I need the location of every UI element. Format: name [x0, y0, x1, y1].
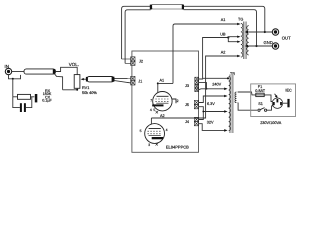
svg-text:J1: J1 [138, 80, 142, 84]
wire TR primary bottom to switch [238, 103, 258, 111]
shielded cable W2 [86, 77, 115, 82]
svg-text:RV1: RV1 [82, 86, 89, 90]
node A1 pad [157, 82, 159, 84]
wire IEC to cord [283, 102, 288, 104]
arrow common at TR [224, 110, 227, 113]
tube V2 [140, 124, 168, 147]
node shield at GND wire [255, 45, 257, 47]
svg-text:0.1µF: 0.1µF [42, 99, 52, 103]
shielded cable W3 [150, 4, 184, 9]
node UB fork [227, 36, 229, 38]
transformer TR mains [229, 72, 237, 133]
svg-text:230V/100VA: 230V/100VA [260, 121, 282, 125]
svg-text:32V: 32V [207, 120, 214, 124]
wire UB fork lower tap [228, 38, 239, 42]
svg-text:4: 4 [150, 108, 152, 112]
wire cable W2 tip to J1 pin1 [114, 77, 130, 79]
svg-text:7: 7 [150, 98, 152, 102]
connector J1 [131, 76, 143, 85]
wire J4 pin1 to common [199, 112, 204, 120]
IEC inlet [272, 88, 292, 108]
chassis ground [35, 94, 38, 102]
wire cable W2 shield to J1 pin2 [114, 81, 130, 83]
svg-text:A1: A1 [160, 79, 165, 83]
svg-text:GND: GND [264, 40, 273, 45]
input jack K1 "IN" [5, 64, 12, 75]
connector J2 [122, 57, 143, 66]
svg-text:IEC: IEC [285, 88, 292, 92]
svg-text:240V: 240V [212, 83, 221, 87]
svg-text:0.8AT: 0.8AT [255, 89, 266, 93]
wire anode V2 [150, 118, 152, 124]
node 240V top at TR [227, 77, 229, 79]
tube V1 [150, 92, 179, 114]
wire UB fork upper tap [228, 36, 239, 39]
svg-text:2: 2 [177, 99, 179, 103]
wire pot bottom bus [63, 88, 78, 90]
wire TR primary top to fuse [238, 92, 256, 95]
wire shield top bus inner (J2.2 to GND) [125, 10, 151, 64]
svg-text:5: 5 [153, 108, 155, 112]
wire cable W1 shield down to pot bottom bus [55, 74, 63, 90]
wire NFB top bus outer (J2.1 to OUT) [122, 6, 265, 59]
svg-text:A1: A1 [221, 18, 226, 22]
svg-text:J5: J5 [185, 103, 189, 107]
output jack GND [264, 40, 279, 49]
wire 240V top to TR [203, 77, 228, 79]
wire jack tip to cable W1 [12, 71, 24, 73]
svg-text:VOL.: VOL. [69, 62, 79, 67]
svg-text:OUT: OUT [282, 35, 291, 40]
svg-text:A2: A2 [221, 51, 226, 55]
svg-text:4: 4 [166, 128, 168, 132]
wire shield node down to RC network [12, 79, 14, 97]
connector J3 [185, 77, 199, 91]
svg-text:50k 40%: 50k 40% [82, 91, 97, 95]
arrow 32V at TR [224, 129, 227, 132]
wire A1 to TG primary top [158, 24, 239, 83]
wire J3 pin4 to TR 240V [199, 89, 226, 90]
switch S1 [258, 102, 267, 111]
svg-text:EL84PPPCB: EL84PPPCB [166, 145, 189, 150]
wire J5 pin1 to TR 6.3V top [199, 96, 226, 103]
wire A2 to TG primary bottom [151, 56, 239, 118]
label RX 150K CX 0.1uF [42, 89, 52, 103]
output jack OUT [272, 29, 291, 41]
connector J4 [185, 117, 199, 125]
node pot bottom [76, 89, 78, 91]
wire jack sleeve to shield/ground node [9, 75, 21, 79]
PCB board outline EL84PP [132, 51, 199, 152]
svg-text:J4: J4 [185, 120, 189, 124]
mains cord stub [287, 99, 289, 107]
arrow TG secondary top [245, 31, 248, 34]
svg-text:TG: TG [238, 17, 243, 21]
wire J4 pin2 to TR 32V bottom [199, 124, 226, 131]
fuse F1 [255, 85, 266, 96]
wire switch to IEC [267, 106, 274, 111]
arrow UB lower at TG [237, 41, 240, 43]
svg-text:J2: J2 [139, 59, 143, 63]
wire fuse to IEC [265, 95, 273, 102]
wire J3 pin1 to UB node [199, 77, 203, 80]
node shield junction [12, 78, 14, 80]
wire UB from J3 area to TG taps [203, 38, 229, 79]
wire TG secondary to GND [247, 45, 273, 47]
svg-text:IN: IN [5, 64, 10, 69]
transformer TG output [238, 17, 249, 59]
wire J3 pin2 stub [199, 83, 207, 89]
wire anode V1 [157, 83, 159, 92]
arrow TG secondary bottom [245, 45, 248, 48]
shielded cable W1 [24, 69, 56, 74]
mains enclosure box [251, 84, 296, 117]
resistor RX [13, 94, 35, 99]
svg-text:J3: J3 [185, 84, 189, 88]
svg-text:5: 5 [140, 129, 142, 133]
wire TG secondary to OUT [247, 31, 273, 33]
arrow 240V bottom at TR [224, 88, 227, 91]
wire J5 pin2 to TR common [199, 107, 226, 112]
svg-text:UB: UB [220, 33, 226, 37]
capacitor CX [13, 97, 32, 112]
arrow A2 at TG [237, 55, 240, 58]
wire cable W1 tip to pot top [56, 67, 77, 75]
node J3 stub [206, 88, 208, 90]
connector J5 [185, 100, 199, 108]
svg-text:6.3V: 6.3V [207, 102, 215, 106]
arrow UB upper at TG [237, 36, 240, 38]
svg-text:3: 3 [148, 143, 150, 147]
node NFB at OUT wire [264, 31, 266, 33]
arrow A1 at TG [237, 23, 240, 26]
svg-text:S1: S1 [258, 102, 263, 106]
node common junction [202, 111, 204, 113]
arrow 6.3V top at TR [224, 95, 227, 98]
potentiometer RV1 VOL. [69, 62, 98, 95]
